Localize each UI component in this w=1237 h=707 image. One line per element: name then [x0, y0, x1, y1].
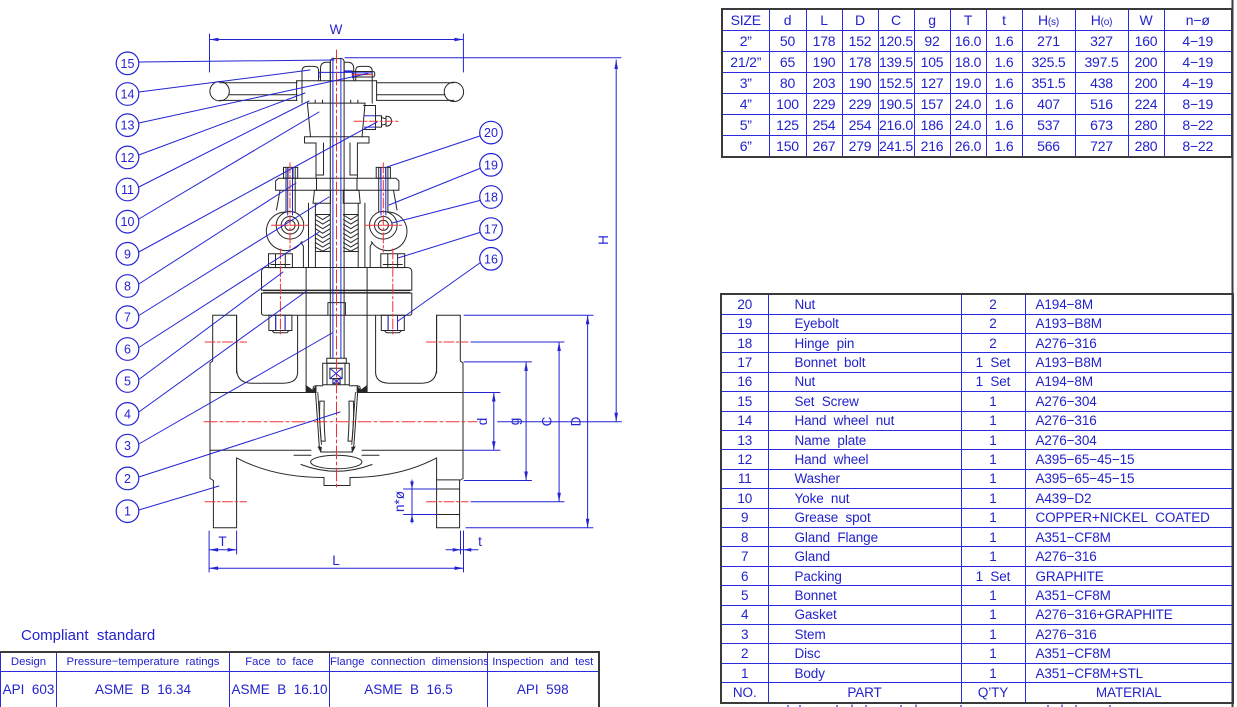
- svg-text:14: 14: [121, 88, 135, 102]
- leader 13: [139, 74, 368, 124]
- hub: [297, 81, 377, 103]
- disc 2 wedge: [294, 386, 379, 456]
- svg-text:10: 10: [121, 215, 135, 229]
- balloon 20: [480, 121, 503, 144]
- stem backseat bushing: [328, 303, 346, 316]
- balloon 17: [480, 218, 503, 241]
- leader 19: [389, 169, 480, 206]
- leader 20: [387, 136, 480, 167]
- flange bolt tick left upper: [205, 341, 247, 343]
- packing 6 box: [315, 203, 358, 267]
- body neck walls: [298, 268, 376, 386]
- body web right U: [376, 315, 437, 383]
- svg-text:8: 8: [124, 280, 131, 294]
- svg-text:d: d: [475, 418, 490, 426]
- svg-text:17: 17: [484, 223, 498, 237]
- gland flange 8: [276, 178, 399, 190]
- hinge pin cross left: [272, 224, 309, 226]
- gasket 4: [264, 291, 411, 293]
- eyebolt shank blue left: [288, 168, 293, 215]
- svg-text:9: 9: [124, 247, 131, 261]
- eyebolt centerline right: [382, 163, 384, 252]
- yoke legs: [277, 190, 398, 267]
- leader 7: [139, 197, 329, 316]
- bowl floor: [301, 465, 372, 472]
- washer 11 / yoke nut 10 internals: [315, 100, 358, 103]
- main horizontal centerline: [204, 421, 477, 423]
- disc T-head: [323, 363, 350, 385]
- svg-text:12: 12: [121, 151, 135, 165]
- leader 12: [139, 93, 305, 155]
- balloon 6: [116, 338, 139, 361]
- svg-text:W: W: [330, 22, 343, 37]
- balloon 9: [116, 243, 139, 266]
- leader 18: [392, 201, 480, 224]
- hinge pin 18 right: [370, 212, 407, 251]
- balloon 5: [116, 370, 139, 393]
- balloon 11: [116, 178, 139, 201]
- main vertical centerline: [336, 50, 338, 490]
- grease centerline: [354, 120, 398, 122]
- eyebolt centerline left: [289, 163, 291, 252]
- dim T: [209, 531, 237, 572]
- svg-text:6: 6: [124, 343, 131, 357]
- svg-text:2: 2: [124, 472, 131, 486]
- bonnet bolt centerline right: [392, 249, 394, 335]
- balloon 10: [116, 210, 139, 233]
- bonnet bolt centerline left: [279, 249, 281, 335]
- svg-text:4: 4: [124, 407, 131, 421]
- balloon 19: [480, 154, 503, 177]
- leader 17: [398, 233, 480, 259]
- body top flange: [262, 293, 412, 315]
- svg-text:L: L: [332, 553, 340, 568]
- bonnet bolt 17 left: [269, 254, 293, 333]
- grease spot 9: [364, 106, 392, 130]
- T-head cross: [330, 368, 342, 383]
- svg-text:t: t: [478, 534, 482, 549]
- hinge pin 18 left: [266, 212, 303, 251]
- balloon 8: [116, 275, 139, 298]
- flange bolt tick left lower: [205, 501, 247, 503]
- svg-text:g: g: [507, 418, 522, 426]
- svg-text:T: T: [218, 534, 226, 549]
- svg-text:7: 7: [124, 311, 131, 325]
- leader 3: [139, 333, 332, 444]
- balloon 7: [116, 306, 139, 329]
- dim d: [464, 393, 500, 451]
- right flange bolt hole section: [437, 480, 460, 515]
- stem blue lines: [333, 58, 341, 358]
- leader 9: [139, 122, 377, 252]
- gland 7: [313, 190, 360, 203]
- leader 8: [139, 183, 296, 284]
- dim W: [210, 34, 464, 72]
- svg-text:C: C: [540, 416, 555, 426]
- leader 10: [139, 112, 319, 219]
- leader 14: [139, 70, 310, 92]
- leader 4: [139, 292, 306, 413]
- eyebolt shank blue right: [381, 168, 386, 215]
- body flange right: [437, 315, 463, 528]
- disc bottom boss: [311, 455, 362, 469]
- dim g: [464, 362, 532, 481]
- svg-text:3: 3: [124, 439, 131, 453]
- svg-text:13: 13: [121, 119, 135, 133]
- stem 3: [327, 62, 347, 363]
- name plate 13: [352, 72, 375, 78]
- leader 15: [139, 60, 334, 62]
- stem top cap: [330, 59, 344, 81]
- bonnet bolt 17 right: [381, 254, 405, 333]
- svg-text:16: 16: [484, 252, 498, 266]
- hand wheel nut 14 (two humps): [297, 62, 377, 81]
- svg-text:5: 5: [124, 375, 131, 389]
- yoke upper block: [305, 103, 370, 143]
- set screw 15 / washer marks (blue): [319, 71, 353, 77]
- balloon 1: [116, 500, 139, 523]
- body bottom profile: [237, 458, 437, 486]
- svg-text:1: 1: [124, 505, 131, 519]
- leader 11: [139, 101, 309, 187]
- svg-text:15: 15: [121, 57, 135, 71]
- weld marks: [306, 386, 367, 393]
- dim t: [446, 531, 478, 572]
- hinge pin cross right: [365, 224, 402, 226]
- marks below parts table (cut next row): [788, 705, 1110, 707]
- balloon numbers: [121, 57, 498, 519]
- svg-text:19: 19: [484, 158, 498, 172]
- balloon 15: [116, 52, 139, 75]
- pipe bore lines: [210, 393, 463, 451]
- balloon 12: [116, 146, 139, 169]
- leader 16: [398, 263, 480, 321]
- leader 6: [139, 232, 319, 348]
- dim H: [345, 58, 621, 422]
- yoke column: [316, 143, 357, 178]
- svg-text:H: H: [596, 235, 611, 245]
- balloon 14: [116, 83, 139, 106]
- balloon 18: [480, 186, 503, 209]
- dim n-hole: [404, 480, 438, 523]
- leader 1: [139, 486, 219, 510]
- nut blue ticks: [276, 317, 398, 330]
- dim C: [471, 342, 564, 502]
- svg-text:n*ø: n*ø: [392, 491, 407, 512]
- flange bolt tick right lower: [427, 501, 469, 503]
- leader 2: [139, 412, 340, 477]
- balloon 4: [116, 403, 139, 426]
- svg-text:20: 20: [484, 126, 498, 140]
- eyebolt 19 right: [376, 167, 390, 212]
- bonnet 5 upper flange: [262, 268, 412, 291]
- balloon 16: [480, 247, 503, 270]
- svg-text:11: 11: [121, 183, 134, 197]
- dim L: [209, 566, 463, 570]
- eyebolt 19 left: [284, 167, 298, 212]
- leader 5: [139, 272, 283, 380]
- svg-text:18: 18: [484, 191, 498, 205]
- hand wheel 12: [210, 82, 464, 102]
- dim D: [464, 315, 593, 528]
- flange bolt tick right upper: [427, 341, 469, 343]
- balloon 2: [116, 467, 139, 490]
- body web left U: [237, 315, 298, 383]
- svg-text:D: D: [569, 416, 584, 426]
- valve outline group: [210, 59, 464, 528]
- body flange left 1: [210, 315, 237, 528]
- name plate red line: [352, 74, 373, 76]
- balloon 3: [116, 434, 139, 457]
- balloon 13: [116, 114, 139, 137]
- packing 6 chevrons: [315, 215, 358, 251]
